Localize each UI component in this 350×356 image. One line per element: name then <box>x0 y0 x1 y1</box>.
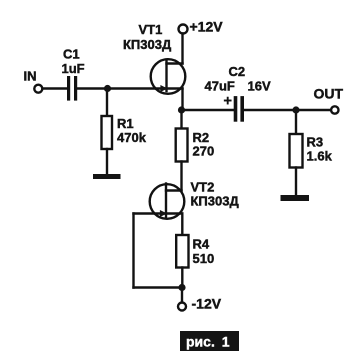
svg-text:OUT: OUT <box>314 85 344 101</box>
svg-text:270: 270 <box>193 143 215 158</box>
svg-text:R3: R3 <box>307 134 324 149</box>
svg-text:КП303Д: КП303Д <box>123 37 172 52</box>
svg-text:510: 510 <box>193 251 215 266</box>
svg-text:47uF: 47uF <box>205 79 235 94</box>
svg-text:IN: IN <box>24 69 37 84</box>
svg-text:1.6k: 1.6k <box>307 148 333 163</box>
svg-text:R1: R1 <box>117 116 134 131</box>
svg-text:+12V: +12V <box>190 18 224 34</box>
svg-text:R4: R4 <box>193 237 210 252</box>
svg-text:1uF: 1uF <box>62 61 85 76</box>
svg-text:-12V: -12V <box>192 296 222 312</box>
svg-text:C1: C1 <box>63 47 80 62</box>
svg-text:470k: 470k <box>117 130 147 145</box>
svg-text:КП303Д: КП303Д <box>191 194 240 209</box>
svg-text:рис. 1: рис. 1 <box>186 334 230 350</box>
svg-text:VT2: VT2 <box>191 180 215 195</box>
svg-text:C2: C2 <box>229 64 246 79</box>
svg-text:16V: 16V <box>248 78 271 93</box>
svg-text:VT1: VT1 <box>139 22 163 37</box>
